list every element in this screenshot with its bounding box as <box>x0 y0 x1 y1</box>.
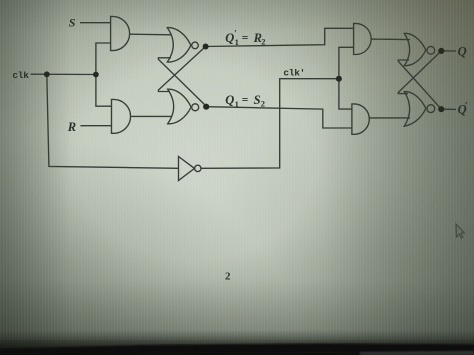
svg-text:1: 1 <box>235 37 239 47</box>
svg-text:S: S <box>69 15 76 29</box>
svg-text:1: 1 <box>235 99 239 109</box>
svg-text:S: S <box>254 93 261 107</box>
svg-text:2: 2 <box>225 270 231 282</box>
svg-text:clk: clk <box>12 70 29 81</box>
svg-text:=: = <box>242 95 249 107</box>
svg-text:2: 2 <box>261 98 265 108</box>
svg-text:clk′: clk′ <box>283 68 305 79</box>
svg-text:2: 2 <box>261 36 265 46</box>
svg-text:Q: Q <box>458 45 467 59</box>
svg-text:Q: Q <box>225 31 234 45</box>
svg-text:′: ′ <box>465 101 468 112</box>
svg-text:R: R <box>67 120 76 134</box>
svg-text:Q: Q <box>225 93 234 107</box>
svg-text:=: = <box>242 33 249 45</box>
